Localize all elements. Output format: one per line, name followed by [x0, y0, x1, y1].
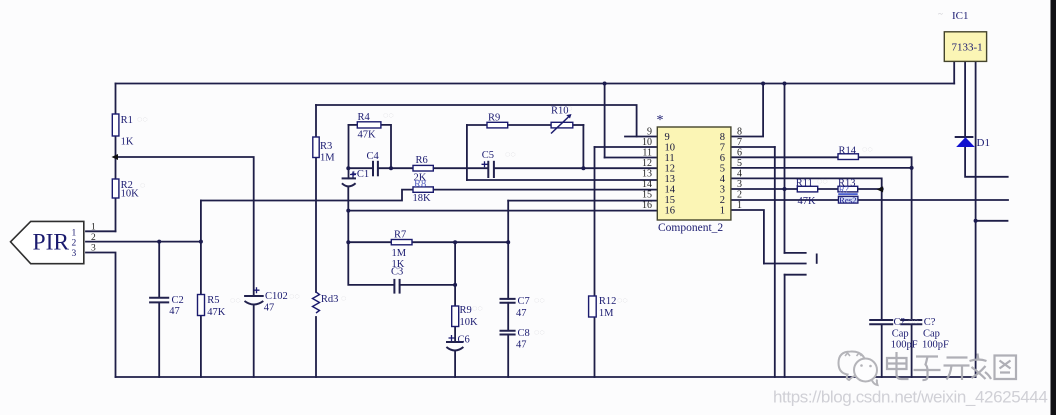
svg-text:◌◌: ◌◌: [383, 110, 394, 120]
svg-text:R12: R12: [599, 296, 617, 307]
svg-text:◌: ◌: [140, 180, 145, 190]
svg-text:Cap: Cap: [923, 329, 940, 340]
svg-text:6: 6: [720, 153, 725, 164]
svg-text:◌◌: ◌◌: [617, 295, 628, 305]
svg-text:R8: R8: [414, 179, 426, 190]
svg-text:11: 11: [665, 153, 675, 164]
svg-text:1M: 1M: [392, 248, 407, 259]
svg-text:7: 7: [737, 137, 742, 148]
svg-text:47K: 47K: [798, 196, 817, 207]
svg-text:PIR: PIR: [33, 230, 70, 256]
svg-text:15: 15: [642, 190, 652, 201]
svg-text:Rd3: Rd3: [321, 294, 339, 305]
svg-text:R14: R14: [839, 146, 857, 157]
svg-text:7: 7: [720, 143, 725, 154]
svg-text:100pF: 100pF: [922, 340, 949, 351]
svg-text:◌◌: ◌◌: [817, 176, 828, 186]
svg-text:47: 47: [169, 306, 180, 317]
svg-text:7133-1: 7133-1: [952, 42, 983, 54]
svg-text:◌◌: ◌◌: [534, 327, 545, 337]
svg-text:9: 9: [665, 132, 670, 143]
svg-text:1: 1: [737, 200, 742, 211]
svg-text:◌◌: ◌◌: [289, 291, 300, 301]
svg-text:◌: ◌: [341, 293, 346, 303]
svg-text:C4: C4: [367, 151, 380, 162]
svg-text:◌◌: ◌◌: [472, 303, 483, 313]
svg-text:C2: C2: [172, 295, 184, 306]
svg-text:1K: 1K: [121, 137, 134, 148]
svg-text:12: 12: [642, 158, 652, 169]
svg-text:R9: R9: [488, 113, 500, 124]
svg-text:3: 3: [737, 179, 742, 190]
svg-text:R11: R11: [796, 178, 813, 189]
svg-text:47K: 47K: [207, 307, 226, 318]
svg-text:2: 2: [91, 233, 96, 243]
svg-text:C?: C?: [924, 317, 936, 328]
svg-text:1: 1: [72, 229, 77, 239]
svg-text:C3: C3: [391, 267, 403, 278]
svg-text:D1: D1: [977, 137, 990, 149]
svg-text:47K: 47K: [358, 130, 377, 141]
svg-text:18K: 18K: [413, 193, 432, 204]
svg-text:R10: R10: [551, 106, 569, 117]
svg-text:Component_2: Component_2: [658, 222, 723, 234]
svg-text:C102: C102: [265, 291, 288, 302]
svg-text:R3: R3: [320, 141, 332, 152]
svg-text:14: 14: [665, 185, 676, 196]
svg-text:5: 5: [720, 164, 725, 175]
svg-text:8: 8: [720, 132, 725, 143]
svg-text:1: 1: [91, 223, 96, 233]
svg-text:~: ~: [938, 9, 943, 19]
svg-text:https://blog.csdn.net/weixin_4: https://blog.csdn.net/weixin_42625444: [773, 388, 1047, 407]
svg-text:10: 10: [642, 137, 652, 148]
svg-text:10: 10: [665, 143, 676, 154]
svg-text:47: 47: [516, 340, 527, 351]
svg-text:R9: R9: [460, 305, 472, 316]
svg-text:C7: C7: [518, 296, 530, 307]
svg-text:R4: R4: [358, 112, 371, 123]
svg-text:16: 16: [665, 206, 676, 217]
svg-text:3: 3: [72, 249, 77, 259]
svg-text:◌◌: ◌◌: [230, 295, 241, 305]
svg-text:1M: 1M: [599, 308, 614, 319]
svg-text:C8: C8: [518, 328, 530, 339]
svg-text:◌◌: ◌◌: [137, 114, 148, 124]
svg-text:◌◌: ◌◌: [908, 316, 919, 326]
svg-text:C?: C?: [894, 317, 906, 328]
svg-text:1M: 1M: [320, 153, 335, 164]
svg-text:3: 3: [720, 185, 725, 196]
svg-text:47: 47: [264, 303, 275, 314]
svg-text:16: 16: [642, 200, 652, 211]
svg-text:◌◌: ◌◌: [862, 144, 873, 154]
svg-text:◌◌: ◌◌: [534, 295, 545, 305]
svg-text:2: 2: [737, 190, 742, 201]
svg-text:R5: R5: [207, 295, 219, 306]
svg-text:2: 2: [72, 239, 77, 249]
svg-text:13: 13: [665, 174, 676, 185]
svg-text:◌: ◌: [567, 103, 572, 113]
svg-text:10K: 10K: [121, 189, 140, 200]
svg-text:C6: C6: [458, 335, 470, 346]
svg-text:IC1: IC1: [952, 10, 969, 22]
svg-text:6: 6: [737, 148, 742, 159]
svg-text:1: 1: [720, 206, 725, 217]
svg-text:8: 8: [737, 127, 742, 138]
svg-text:*: *: [657, 113, 664, 128]
svg-text:2: 2: [720, 195, 725, 206]
svg-text:9: 9: [647, 127, 652, 138]
svg-text:12: 12: [665, 164, 676, 175]
svg-text:13: 13: [642, 169, 652, 180]
svg-text:R1: R1: [121, 115, 133, 126]
svg-text:R7: R7: [394, 230, 406, 241]
svg-text:R13: R13: [838, 178, 856, 189]
svg-text:10K: 10K: [460, 317, 479, 328]
svg-text:11: 11: [642, 148, 652, 159]
svg-text:Res2: Res2: [839, 195, 857, 205]
svg-text:14: 14: [642, 179, 652, 190]
svg-text:15: 15: [665, 195, 676, 206]
svg-text:4: 4: [737, 169, 742, 180]
svg-text:100pF: 100pF: [891, 340, 918, 351]
svg-text:C5: C5: [482, 150, 494, 161]
svg-text:5: 5: [737, 158, 742, 169]
svg-text:R6: R6: [416, 155, 428, 166]
svg-text:◌◌: ◌◌: [505, 149, 516, 159]
svg-text:Cap: Cap: [892, 329, 909, 340]
svg-text:3: 3: [91, 244, 96, 254]
svg-text:4: 4: [720, 174, 726, 185]
svg-text:47: 47: [516, 308, 527, 319]
